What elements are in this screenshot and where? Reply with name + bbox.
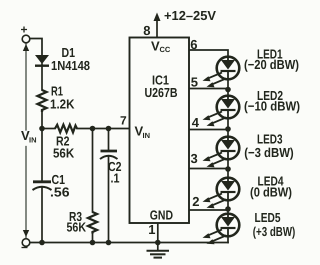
- svg-text:2: 2: [192, 194, 199, 209]
- svg-text:1: 1: [148, 222, 155, 237]
- svg-text:GND: GND: [150, 208, 173, 223]
- svg-text:1.2K: 1.2K: [50, 97, 75, 112]
- svg-text:3: 3: [191, 151, 198, 166]
- svg-text:(+3 dBW): (+3 dBW): [253, 224, 295, 239]
- svg-text:+12–25V: +12–25V: [164, 8, 216, 23]
- svg-text:7: 7: [120, 113, 127, 127]
- svg-text:8: 8: [143, 23, 150, 38]
- svg-text:IN: IN: [143, 131, 151, 140]
- svg-text:4: 4: [192, 115, 200, 130]
- svg-text:(−20 dBW): (−20 dBW): [244, 57, 299, 72]
- svg-text:56K: 56K: [53, 146, 75, 161]
- svg-text:1N4148: 1N4148: [51, 58, 90, 73]
- svg-text:(−10 dBW): (−10 dBW): [244, 99, 300, 114]
- svg-text:U267B: U267B: [145, 85, 178, 100]
- svg-text:5: 5: [191, 75, 198, 90]
- svg-text:LED5: LED5: [255, 210, 281, 225]
- svg-text:.56: .56: [50, 185, 70, 200]
- svg-text:+: +: [21, 23, 28, 37]
- svg-text:.1: .1: [111, 171, 120, 186]
- svg-text:6: 6: [190, 37, 197, 52]
- svg-text:56K: 56K: [67, 220, 87, 235]
- svg-text:(−3 dBW): (−3 dBW): [244, 145, 294, 160]
- svg-text:−: −: [21, 241, 28, 255]
- svg-text:IN: IN: [29, 136, 37, 145]
- svg-text:CC: CC: [160, 45, 171, 54]
- svg-text:(0 dBW): (0 dBW): [250, 185, 292, 200]
